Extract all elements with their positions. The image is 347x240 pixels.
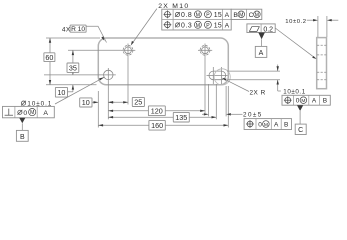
FCF row2: position, dia 0.3 M, P 15, A	[164, 21, 230, 30]
svg-text:0.2: 0.2	[263, 26, 273, 33]
svg-text:B: B	[323, 98, 327, 105]
svg-text:M: M	[196, 23, 200, 29]
side view hidden lines	[317, 45, 326, 80]
plate outline front view	[98, 38, 228, 85]
bottom dim row: 25 (hole B to M10#1)	[108, 97, 144, 106]
hole B centerlines	[100, 74, 116, 76]
svg-text:A: A	[274, 122, 279, 129]
svg-text:10±0.2: 10±0.2	[285, 19, 306, 25]
svg-text:B: B	[284, 122, 288, 129]
svg-text:M: M	[30, 110, 34, 116]
svg-text:120: 120	[151, 107, 163, 116]
datum A symbol under flatness FCF	[255, 33, 266, 58]
svg-text:B: B	[20, 134, 25, 141]
svg-text:60: 60	[45, 53, 53, 62]
left extension lines for height dims	[44, 38, 121, 85]
bottom dim row: 135 (hole B to slot center)	[108, 112, 216, 122]
datum C symbol under slot FCF	[295, 105, 306, 134]
svg-text:A: A	[225, 22, 230, 29]
svg-text:0: 0	[296, 98, 300, 105]
svg-text:4X: 4X	[62, 27, 71, 34]
label 2X R with leader to slot radius	[222, 78, 266, 97]
svg-text:0: 0	[23, 110, 27, 117]
svg-text:25: 25	[134, 98, 142, 107]
tapped hole M10 #2	[198, 44, 212, 58]
svg-text:M: M	[196, 12, 200, 18]
svg-text:135: 135	[175, 113, 187, 122]
FCF row1: position, dia 0.8 M, P 15, A, B M, C M	[164, 10, 261, 19]
position FCF table for M10 holes (2 rows)	[162, 9, 262, 30]
svg-text:0.8: 0.8	[181, 12, 192, 19]
label 4X R 10 with leader to corner	[62, 25, 107, 42]
svg-text:A: A	[312, 98, 317, 105]
svg-text:M: M	[255, 12, 259, 18]
dim 10±0.2 side view thickness	[285, 16, 338, 37]
slot outline	[209, 71, 226, 80]
corner radius construction circle at slot	[214, 69, 230, 85]
label dia 10 ±0.1 with leader to hole B	[21, 77, 104, 107]
svg-text:0: 0	[258, 122, 262, 129]
hole B vertical extension	[107, 82, 109, 119]
bottom dim row: 10 (edge to hole B)	[80, 98, 115, 107]
slot length dim 20±5	[202, 112, 263, 119]
svg-text:P: P	[206, 12, 210, 18]
svg-text:35: 35	[69, 64, 77, 73]
svg-text:C: C	[249, 12, 254, 19]
svg-text:0.3: 0.3	[181, 22, 192, 29]
svg-text:P: P	[206, 23, 210, 29]
svg-text:10: 10	[82, 98, 90, 107]
slot left end extension	[208, 84, 210, 116]
M10#1 vertical extension	[127, 57, 129, 104]
svg-text:15: 15	[214, 12, 222, 19]
slot width dim 10±0.1	[277, 65, 306, 96]
svg-text:10±0.1: 10±0.1	[283, 89, 305, 96]
tapped hole M10 #1	[121, 44, 135, 58]
leader from 2X M10 frame to hole M10#1	[131, 9, 157, 46]
svg-text:C: C	[298, 127, 303, 134]
svg-text:M: M	[264, 122, 268, 128]
svg-text:M: M	[239, 12, 243, 18]
svg-text:160: 160	[151, 121, 163, 130]
svg-text:15: 15	[214, 22, 222, 29]
side view body	[317, 38, 327, 89]
svg-text:R 10: R 10	[71, 26, 85, 33]
hole B circle	[104, 70, 113, 79]
dim 60 vertical	[44, 38, 55, 85]
svg-text:B: B	[233, 12, 238, 19]
svg-text:M: M	[301, 98, 305, 104]
svg-text:A: A	[43, 110, 48, 117]
slot arc centerlines	[207, 67, 228, 84]
bottom dim row: 120 (hole B to M10#2)	[108, 106, 205, 116]
dim 10 vertical (hole B to bottom edge)	[55, 85, 74, 97]
slot center extension	[215, 84, 217, 119]
leader flatness FCF to side view face	[275, 28, 316, 59]
perpendicularity FCF for hole B	[3, 106, 55, 117]
slot right end extension	[225, 86, 227, 116]
svg-text:10: 10	[57, 88, 65, 97]
bottom dim row: 160 (overall)	[98, 120, 228, 130]
slot width extension lines	[227, 71, 280, 80]
svg-text:20±5: 20±5	[243, 112, 263, 119]
position FCF for slot length 20±5	[244, 119, 291, 130]
svg-text:A: A	[259, 50, 264, 57]
dim 35 vertical	[67, 50, 79, 75]
right edge extension	[227, 86, 229, 128]
svg-text:A: A	[225, 12, 230, 19]
flatness FCF	[247, 24, 275, 34]
svg-text:2X R: 2X R	[250, 90, 266, 97]
left edge extension	[97, 91, 99, 128]
M10#2 vertical extension	[204, 57, 206, 113]
datum B symbol under perpendicularity FCF	[16, 118, 28, 141]
position FCF for slot width (datum C feature)	[282, 95, 330, 105]
extension lines below plate	[98, 57, 228, 127]
